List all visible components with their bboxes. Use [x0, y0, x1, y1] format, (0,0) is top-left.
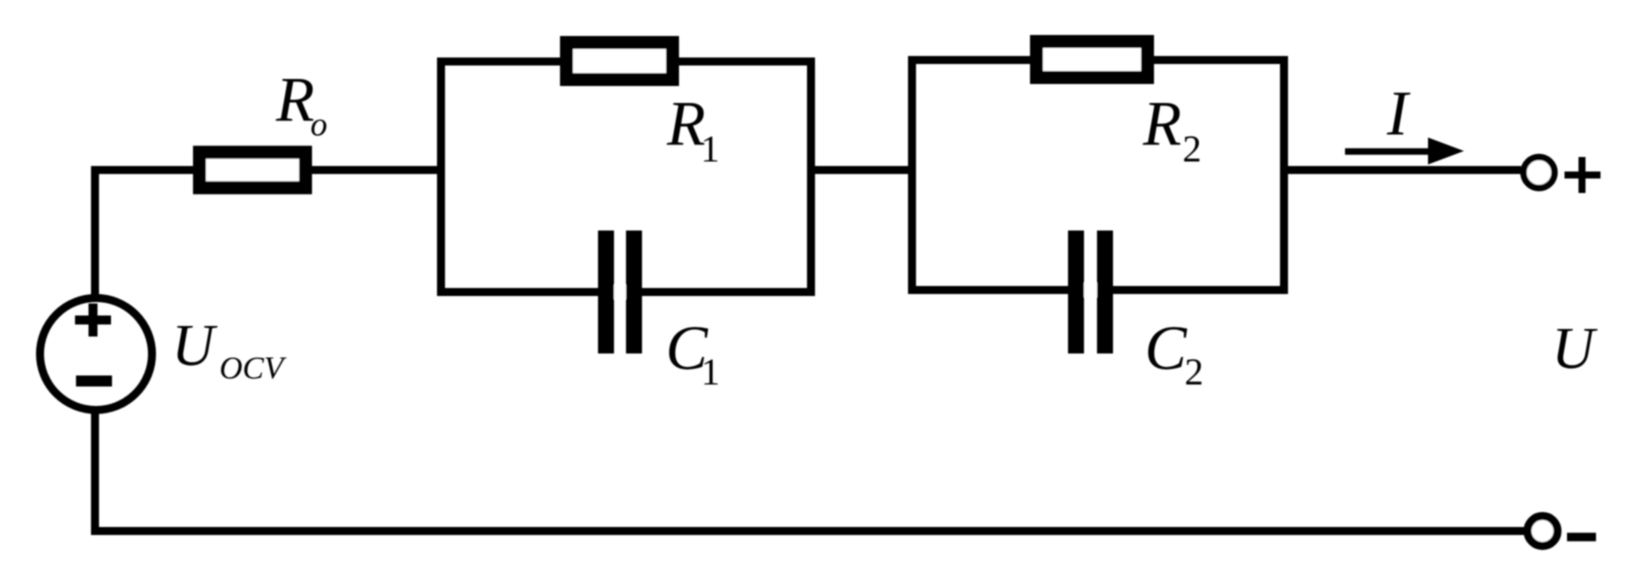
svg-text:C: C — [1145, 313, 1188, 383]
svg-text:R: R — [666, 89, 705, 159]
svg-text:R: R — [275, 65, 314, 135]
svg-text:2: 2 — [1183, 128, 1202, 170]
svg-text:1: 1 — [701, 128, 720, 170]
svg-text:I: I — [1386, 79, 1411, 149]
svg-text:OCV: OCV — [219, 350, 286, 386]
svg-text:1: 1 — [701, 351, 720, 393]
svg-text:R: R — [1142, 89, 1181, 159]
svg-text:U: U — [172, 312, 218, 378]
svg-text:2: 2 — [1185, 351, 1204, 393]
svg-text:o: o — [310, 107, 327, 144]
svg-text:U: U — [1552, 315, 1598, 381]
